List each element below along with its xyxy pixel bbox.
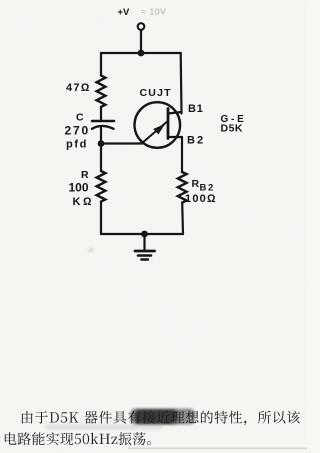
wire: terminal to top rail: [140, 30, 142, 53]
wire: B2 to RB2: [181, 137, 183, 172]
svg-text:270: 270: [65, 124, 90, 138]
svg-text:B2: B2: [187, 135, 205, 147]
ground: [143, 234, 145, 251]
node: top rail junction: [138, 50, 145, 57]
wire: R to bottom rail: [100, 202, 102, 234]
svg-text:KΩ: KΩ: [73, 196, 95, 208]
svg-text:B1: B1: [188, 103, 204, 115]
svg-text:B2: B2: [200, 183, 215, 194]
wire: resistor to capacitor: [100, 107, 102, 120]
svg-text:R: R: [192, 178, 200, 190]
node: ground junction: [141, 231, 148, 238]
resistor RB2 100ohm: [178, 172, 187, 203]
resistor R 100K: [97, 171, 106, 202]
transistor base bar: [167, 109, 170, 139]
pin B2 lead: [168, 136, 182, 138]
wire: bottom rail: [101, 233, 183, 235]
wire: emitter node down to R: [100, 144, 102, 172]
svg-text:100Ω: 100Ω: [185, 193, 217, 205]
svg-text:R: R: [81, 169, 89, 181]
svg-text:C: C: [76, 112, 84, 124]
svg-text:D5K: D5K: [221, 123, 244, 135]
svg-text:+V: +V: [118, 7, 131, 18]
emitter lead with arrow: [142, 121, 168, 143]
caption line 1: [22, 411, 300, 426]
wire: RB2 to bottom rail: [181, 203, 184, 234]
pin B1 lead: [168, 112, 182, 114]
capacitor C top plate: [92, 120, 114, 123]
svg-text:100: 100: [69, 181, 89, 195]
svg-text:CUJT: CUJT: [140, 87, 172, 99]
svg-text:pfd: pfd: [66, 139, 88, 151]
node: emitter junction: [98, 140, 105, 147]
wire: capacitor to emitter node: [100, 128, 102, 144]
wire: emitter node to transistor: [101, 142, 142, 144]
caption line 2: [5, 432, 151, 445]
capacitor C bottom plate: [92, 126, 114, 129]
wire: top rail: [101, 53, 182, 114]
supply terminal +V: [138, 23, 145, 30]
svg-text:47Ω: 47Ω: [66, 82, 91, 94]
transistor Q1 CUJT circle: [135, 102, 181, 148]
scan smudge artifact: [45, 248, 307, 450]
svg-text:= 10V: = 10V: [141, 7, 166, 17]
resistor 47ohm: [97, 76, 106, 107]
